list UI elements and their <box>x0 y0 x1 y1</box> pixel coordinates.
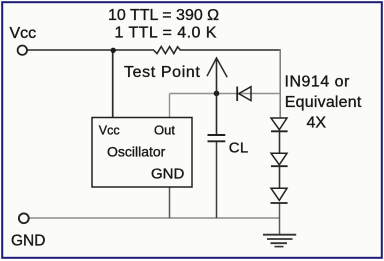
svg-text:CL: CL <box>229 140 249 157</box>
svg-text:Out: Out <box>154 122 175 137</box>
svg-text:4X: 4X <box>307 115 327 132</box>
svg-text:10 TTL = 390 Ω: 10 TTL = 390 Ω <box>108 7 219 24</box>
svg-text:Oscillator: Oscillator <box>107 144 166 160</box>
svg-text:1 TTL = 4.0 K: 1 TTL = 4.0 K <box>115 24 217 41</box>
svg-text:IN914 or: IN914 or <box>285 74 351 91</box>
svg-text:Test Point: Test Point <box>124 64 200 81</box>
svg-text:GND: GND <box>11 232 45 249</box>
svg-text:Vcc: Vcc <box>99 123 120 137</box>
svg-text:Vcc: Vcc <box>10 25 37 42</box>
svg-text:Equivalent: Equivalent <box>285 94 362 111</box>
svg-text:GND: GND <box>151 166 185 183</box>
